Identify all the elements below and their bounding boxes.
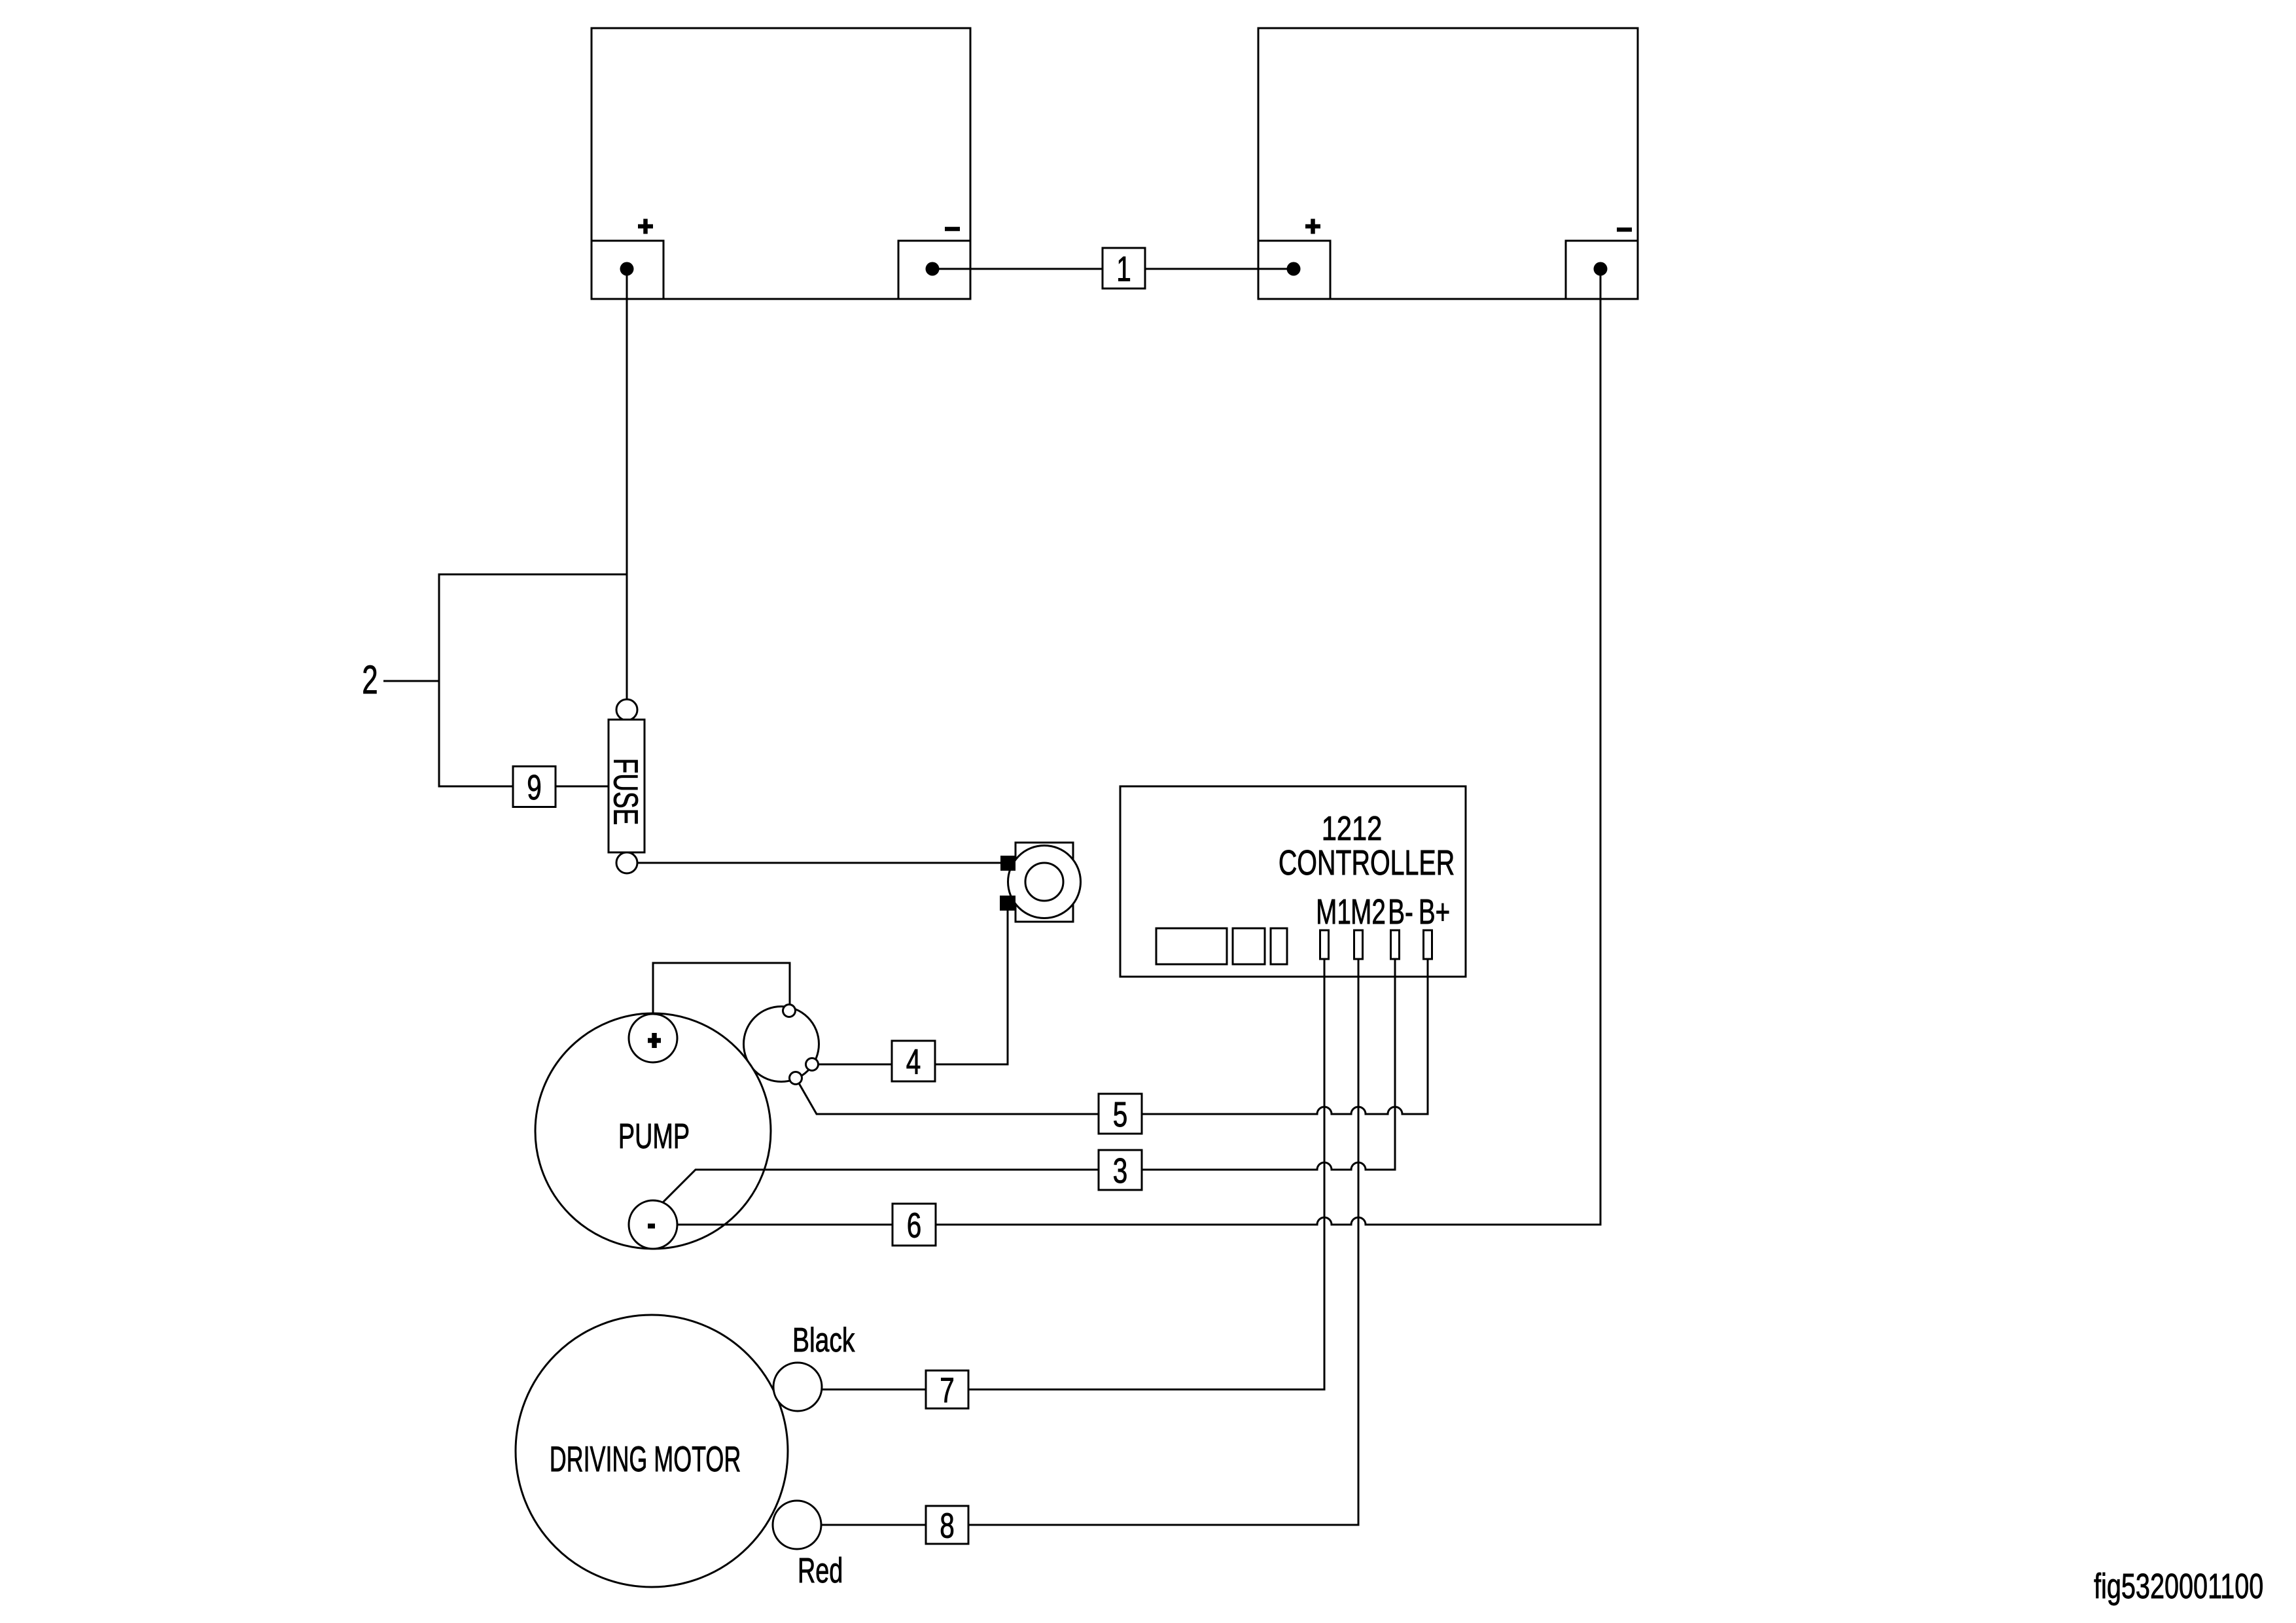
wire pump positive to key switch xyxy=(653,963,790,1014)
svg-text:5: 5 xyxy=(1113,1095,1128,1134)
connector label 9 xyxy=(513,767,556,808)
svg-text:1212: 1212 xyxy=(1322,809,1383,848)
motor black terminal xyxy=(773,1363,822,1411)
connector label 1 xyxy=(1103,248,1145,289)
battery B2 positive terminal xyxy=(1287,219,1321,276)
wire connector 3 to controller B- xyxy=(1142,959,1395,1170)
svg-text:2: 2 xyxy=(362,658,378,703)
wire pump to connector 3 xyxy=(663,1170,1099,1202)
connector label 4 xyxy=(892,1041,935,1082)
connector label 3 xyxy=(1099,1150,1142,1191)
svg-text:DRIVING MOTOR: DRIVING MOTOR xyxy=(550,1439,741,1479)
wire node 2 bracket vertical xyxy=(438,574,440,788)
connector label 5 xyxy=(1099,1094,1142,1134)
wire node 2 lead xyxy=(383,680,439,682)
wire contactor coil to connector 4 xyxy=(935,911,1008,1064)
svg-text:3: 3 xyxy=(1113,1151,1128,1191)
svg-text:FUSE: FUSE xyxy=(607,758,645,826)
wire node 2 bracket bottom xyxy=(439,786,513,788)
svg-text:B-: B- xyxy=(1388,892,1413,932)
fuse F1 xyxy=(609,699,645,873)
wire key switch to connector 5 xyxy=(799,1083,1099,1114)
svg-text:PUMP: PUMP xyxy=(618,1116,690,1155)
wire connector 8 to motor red terminal xyxy=(821,1524,926,1526)
svg-text:1: 1 xyxy=(1116,250,1131,289)
wire fuse to contactor coil xyxy=(637,862,1000,864)
svg-text:M1: M1 xyxy=(1316,892,1351,932)
connector label 6 xyxy=(892,1204,936,1246)
svg-text:Red: Red xyxy=(798,1550,843,1590)
connector label 7 xyxy=(926,1370,968,1410)
svg-text:M2: M2 xyxy=(1351,892,1386,932)
wire controller M1 to connector 7 xyxy=(968,959,1324,1389)
wire battery B1 positive down to fuse xyxy=(626,269,628,700)
svg-text:7: 7 xyxy=(940,1371,955,1410)
contactor K1 xyxy=(1000,843,1081,922)
pump motor xyxy=(535,1013,771,1249)
battery B1 negative terminal xyxy=(926,229,961,276)
wire connector 9 to fuse xyxy=(556,786,609,788)
wire connector 5 to controller B+ xyxy=(1142,959,1428,1114)
svg-text:CONTROLLER: CONTROLLER xyxy=(1279,843,1455,883)
connector label 8 xyxy=(926,1506,968,1546)
battery B2 negative terminal xyxy=(1594,230,1633,276)
wire controller M2 to connector 8 xyxy=(968,959,1358,1525)
wire connector 7 to motor black terminal xyxy=(822,1389,926,1391)
key switch connector xyxy=(744,1005,819,1085)
controller U1 xyxy=(1120,786,1466,977)
wire connector 1 to battery B2 positive xyxy=(1145,268,1294,270)
pump negative terminal xyxy=(629,1200,677,1249)
wire pump negative to connector 6 xyxy=(677,1224,892,1226)
pump positive terminal xyxy=(629,1014,677,1062)
wire node 2 bracket top xyxy=(439,574,627,576)
battery B1 xyxy=(592,28,970,299)
svg-text:fig5320001100: fig5320001100 xyxy=(2094,1567,2263,1606)
svg-text:4: 4 xyxy=(906,1043,921,1082)
svg-text:Black: Black xyxy=(792,1320,855,1359)
svg-text:6: 6 xyxy=(907,1206,922,1246)
battery B2 xyxy=(1258,28,1638,299)
svg-text:8: 8 xyxy=(940,1507,955,1546)
wire connector 6 to battery B2 negative xyxy=(936,269,1600,1225)
battery B1 positive terminal xyxy=(620,219,654,276)
wire key switch to connector 4 xyxy=(819,1064,892,1066)
driving motor xyxy=(516,1315,788,1587)
svg-text:B+: B+ xyxy=(1419,892,1450,932)
motor red terminal xyxy=(773,1501,821,1549)
svg-text:9: 9 xyxy=(527,768,542,807)
wire battery B1 negative to connector 1 xyxy=(932,268,1103,270)
